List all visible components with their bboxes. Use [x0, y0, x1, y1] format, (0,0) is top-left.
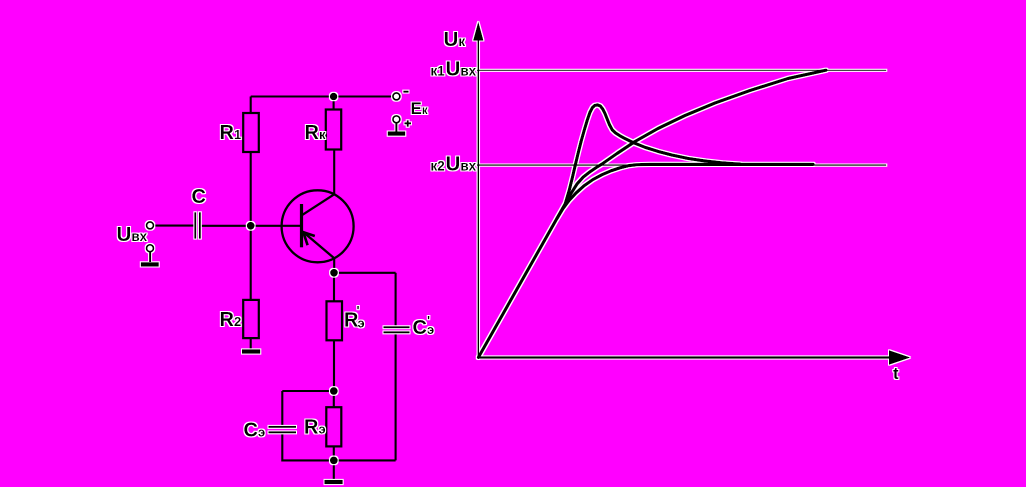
node bottom [330, 457, 338, 465]
wire C'э down to bottom return [395, 332, 397, 460]
svg-text:к1: к1 [431, 64, 446, 79]
axis X (t) [478, 351, 909, 364]
label R'э [344, 303, 365, 332]
label t [893, 364, 899, 383]
terminal Uвх ground circle [147, 245, 154, 252]
label C [192, 186, 206, 208]
wire collector [333, 150, 335, 195]
level line к1Uвх [477, 69, 886, 71]
svg-text:C: C [413, 317, 427, 339]
label R2 [220, 309, 242, 331]
wire emitter to node [333, 258, 335, 272]
wire emitter node to right branch [334, 272, 396, 274]
curve damped response to к2Uвх [557, 164, 813, 218]
level line к2Uвх [477, 164, 886, 166]
wire Rэ to bottom node [333, 446, 335, 460]
label Uк [444, 28, 466, 51]
label к2Uвх [431, 153, 477, 176]
terminal Ек plus [393, 116, 411, 127]
curve overshoot response [478, 105, 740, 358]
capacitor C'э [384, 327, 410, 332]
ground Ек [388, 123, 406, 134]
terminal Uвх [147, 222, 154, 229]
resistor Rк [326, 110, 341, 150]
ground Uвх [141, 251, 159, 264]
wire Cэ bottom return [282, 432, 334, 460]
axis Y (Uк) [474, 24, 483, 358]
curve slow response to к1Uвх [566, 70, 826, 202]
wire input terminal to capacitor C [154, 225, 195, 227]
wire capacitor C to base node [201, 225, 251, 227]
node base [247, 222, 255, 230]
wire R2 to ground [250, 338, 252, 349]
capacitor Cэ [269, 427, 297, 433]
capacitor C [195, 212, 200, 238]
resistor R'э [327, 301, 343, 340]
wire top supply rail [251, 95, 393, 97]
wire emitter node down to R'э [333, 273, 335, 302]
wire R'э to mid node [333, 340, 335, 391]
svg-text:t: t [893, 364, 899, 383]
svg-text:э: э [427, 322, 434, 337]
node emitter [330, 269, 338, 277]
wire Cэ top [281, 391, 283, 427]
node top rail junction [330, 93, 338, 101]
resistor Rэ [326, 407, 341, 446]
transistor emitter stroke [303, 232, 335, 259]
ground R2 [242, 349, 260, 353]
wire bottom right return [334, 459, 396, 461]
label к1Uвх [431, 58, 477, 81]
label R1 [220, 122, 242, 144]
transistor emitter arrow (PNP, points to base) [303, 232, 315, 245]
transistor VT1 circle [282, 190, 354, 262]
resistor R1 [243, 113, 259, 152]
label Ек [411, 99, 428, 118]
transistor base bar [300, 204, 303, 247]
terminal Ек minus [393, 92, 409, 100]
wire mid node left to Cэ [282, 390, 334, 392]
transistor collector stroke [303, 194, 335, 215]
ground bottom [325, 480, 343, 484]
label Rэ [304, 417, 326, 439]
label Uвх [117, 223, 148, 246]
svg-text:C: C [192, 186, 206, 208]
label Cэ [244, 420, 266, 442]
node mid (R'э/Rэ junction) [330, 387, 338, 395]
label C'э [413, 313, 435, 339]
wire base [251, 225, 302, 227]
resistor R2 [243, 300, 259, 338]
svg-text:э: э [358, 316, 365, 331]
wire bottom node to ground [333, 460, 335, 480]
label Rк [305, 122, 326, 144]
wire Rк top [333, 97, 335, 110]
wire R1 top [250, 97, 252, 114]
wire mid node to Rэ [333, 391, 335, 407]
wire base node down to R2 [250, 226, 252, 300]
wire right branch down to C'э [395, 273, 397, 327]
svg-text:к2: к2 [431, 159, 445, 174]
wire R1 bottom to base node [250, 152, 252, 226]
